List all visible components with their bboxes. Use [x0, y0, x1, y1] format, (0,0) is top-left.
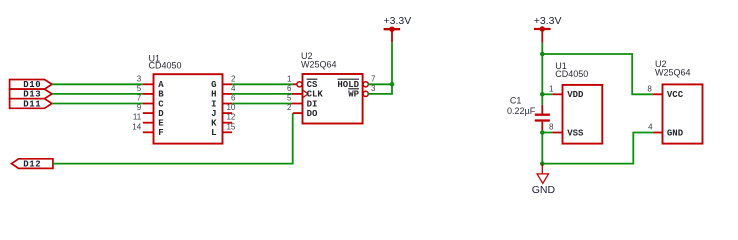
U2 GND pin 4 stub: [654, 132, 663, 134]
svg-text:CD4050: CD4050: [149, 61, 182, 71]
svg-text:W25Q64: W25Q64: [301, 59, 337, 69]
svg-text:C: C: [158, 99, 164, 109]
svg-text:VDD: VDD: [567, 90, 584, 100]
flash IC U2 W25Q64: [303, 74, 363, 124]
svg-text:D: D: [158, 109, 164, 119]
svg-text:3: 3: [371, 84, 376, 93]
svg-text:H: H: [211, 90, 216, 100]
svg-text:11: 11: [133, 113, 142, 122]
svg-text:5: 5: [287, 94, 292, 103]
junction rail/VDD: [540, 92, 545, 97]
svg-text:+3.3V: +3.3V: [534, 15, 562, 27]
wire rail to U1 VSS: [542, 132, 552, 134]
svg-text:8: 8: [549, 123, 554, 132]
svg-text:K: K: [211, 119, 217, 129]
wire GND branch to U2 pin 4: [542, 133, 653, 164]
svg-text:I: I: [211, 99, 216, 109]
power +3.3V (left): [384, 15, 412, 42]
svg-text:CS: CS: [307, 80, 318, 90]
net label D13: [10, 89, 52, 100]
U2 pin 7 HOLD bubble: [363, 82, 368, 87]
U1 pin 15 (L) stub: [223, 131, 233, 133]
junction at +3.3V/HOLD: [390, 82, 395, 87]
wire +3.3V to U2 HOLD and WP: [368, 42, 392, 94]
U2 pin 2 DO stub: [293, 112, 303, 114]
svg-text:J: J: [211, 109, 216, 119]
svg-text:GND: GND: [532, 184, 556, 196]
power +3.3V (right): [534, 15, 562, 43]
svg-text:DO: DO: [307, 109, 318, 119]
svg-text:8: 8: [647, 84, 652, 93]
svg-text:15: 15: [226, 122, 235, 131]
U1 pin 7 (C) stub: [143, 103, 154, 105]
overline WP: [348, 88, 359, 90]
svg-text:VSS: VSS: [567, 128, 584, 138]
U1 pin 4 (H) stub: [223, 93, 233, 95]
svg-text:10: 10: [226, 103, 235, 112]
wire rail below C1 to GND: [541, 130, 543, 163]
net label D11: [10, 99, 52, 110]
svg-text:7: 7: [137, 94, 142, 103]
svg-text:F: F: [158, 128, 163, 138]
svg-text:4: 4: [231, 84, 236, 93]
U2 VCC pin 8 stub: [653, 93, 663, 95]
svg-text:1: 1: [287, 74, 292, 83]
wire U1 H to U2 CLK: [232, 93, 292, 95]
svg-text:2: 2: [231, 74, 236, 83]
buffer IC U1 CD4050 power section: [563, 85, 603, 144]
svg-text:W25Q64: W25Q64: [655, 68, 691, 78]
wire U1 G to U2 CS: [232, 83, 293, 85]
capacitor C1: [535, 105, 550, 131]
U2 pin 5 DI stub: [292, 103, 303, 105]
U1 VDD pin 1 stub: [553, 93, 563, 95]
wire net D11 to U1: [52, 103, 143, 105]
svg-text:WP: WP: [348, 90, 359, 100]
svg-text:L: L: [211, 128, 216, 138]
svg-text:G: G: [211, 80, 216, 90]
U1 pin 11 (E) stub: [143, 122, 154, 124]
svg-text:CD4050: CD4050: [555, 69, 588, 79]
wire VCC branch to U2 pin 8: [542, 54, 652, 94]
svg-text:6: 6: [287, 84, 292, 93]
junction rail/GND branch: [540, 161, 545, 166]
wire net D13 to U1: [52, 93, 143, 95]
net label D10: [10, 80, 52, 91]
svg-text:5: 5: [137, 84, 142, 93]
overline CS: [307, 78, 318, 80]
ground GND symbol: [532, 164, 556, 196]
svg-text:CLK: CLK: [307, 90, 324, 100]
U1 pin 6 (I) stub: [223, 103, 233, 105]
U1 pin 5 (B) stub: [143, 93, 154, 95]
svg-text:9: 9: [137, 103, 142, 112]
U2 pin 6 CLK stub+clock mark: [292, 93, 303, 95]
U1 pin 10 (J) stub: [223, 112, 233, 114]
buffer IC U1 CD4050: [154, 74, 223, 143]
U1 pin 9 (D) stub: [143, 112, 154, 114]
U2 pin 3 WP bubble: [363, 91, 368, 96]
junction rail/VSS: [540, 130, 545, 135]
svg-text:+3.3V: +3.3V: [384, 15, 412, 27]
svg-text:0.22µF: 0.22µF: [507, 106, 536, 116]
U1 pin 14 (F) stub: [143, 131, 154, 133]
svg-text:E: E: [158, 119, 164, 129]
svg-text:DI: DI: [307, 99, 318, 109]
svg-text:VCC: VCC: [667, 90, 684, 100]
svg-text:2: 2: [287, 103, 292, 112]
wire net D10 to U1: [52, 83, 143, 85]
svg-text:A: A: [158, 80, 164, 90]
U1 pin 3 (A) stub: [143, 83, 154, 85]
U1 pin 12 (K) stub: [223, 122, 233, 124]
wire U1 I to U2 DI: [232, 103, 291, 105]
U1 pin 2 (G) stub: [223, 83, 233, 85]
net label D12: [12, 159, 53, 170]
junction rail/VCC branch: [540, 52, 545, 57]
svg-text:D12: D12: [23, 159, 41, 169]
svg-text:B: B: [158, 90, 164, 100]
wire +3.3V rail (right): [541, 43, 543, 105]
svg-text:14: 14: [132, 122, 141, 131]
U2 pin 1 CS stub+bubble: [293, 83, 297, 85]
wire net D12 to U2 DO: [53, 113, 293, 164]
svg-text:GND: GND: [667, 128, 684, 138]
svg-text:3: 3: [137, 74, 142, 83]
overline HOLD: [338, 78, 360, 80]
U1 VSS pin 8 stub: [553, 132, 563, 134]
svg-text:1: 1: [549, 84, 554, 93]
svg-text:6: 6: [231, 94, 236, 103]
svg-text:4: 4: [648, 123, 653, 132]
svg-text:12: 12: [226, 113, 235, 122]
svg-text:7: 7: [371, 74, 376, 83]
flash IC U2 W25Q64 power section: [663, 84, 703, 143]
svg-text:C1: C1: [510, 95, 522, 105]
wire rail to U1 VDD: [542, 93, 552, 95]
svg-text:D11: D11: [23, 99, 41, 109]
